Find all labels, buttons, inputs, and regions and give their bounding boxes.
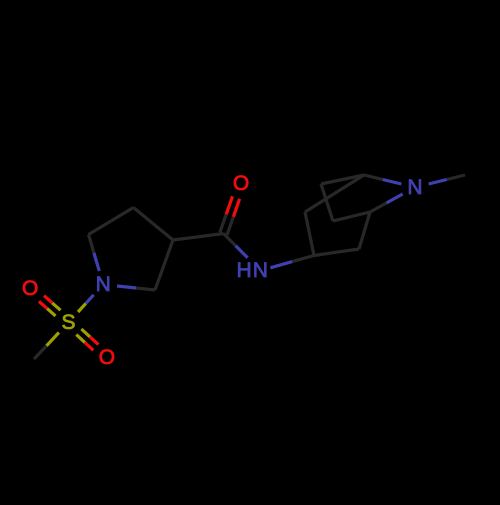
wire: bond N1-C5 pyrrolidine [117, 286, 136, 288]
wire: bond N1-C2 pyrrolidine [94, 253, 99, 271]
svg-text:H: H [237, 259, 252, 282]
svg-text:O: O [99, 346, 115, 369]
svg-text:N: N [253, 259, 268, 282]
double bond S=O lower [76, 335, 85, 343]
wire: bond C1-C2 tropane [335, 175, 365, 194]
wire: bond C7-C5 bridge [333, 217, 352, 222]
svg-text:O: O [233, 172, 249, 195]
svg-text:N: N [96, 273, 111, 296]
bond N8-C5 tropane [386, 194, 402, 203]
bond C-N amide [224, 234, 236, 246]
wire: bond C6-C7 bridge [321, 184, 327, 203]
wire: bond C2-C3 [89, 221, 112, 235]
wire: bond C4-C5 tropane [359, 231, 365, 250]
double bond C=O [227, 217, 233, 235]
wire: bond C3-C4 tropane [314, 252, 337, 255]
wire: bond C3-C4 [134, 208, 154, 224]
wire: bond C4-C5 [164, 240, 173, 265]
wire: bond C2-C3 tropane [305, 212, 310, 234]
bond S-N1 [78, 303, 86, 312]
wire: bond C1-C6 bridge [343, 175, 365, 180]
bond N amide-C3 tropane [270, 262, 292, 268]
svg-text:O: O [22, 277, 38, 300]
double bond S=O upper [52, 303, 60, 310]
svg-text:N: N [407, 176, 422, 199]
bond N8-C1 tropane [383, 180, 402, 185]
bond S-methyl [47, 333, 59, 346]
svg-text:S: S [61, 311, 75, 334]
wire: bond C4-carbonyl C [173, 237, 198, 240]
bond N8-methyl [429, 180, 447, 185]
